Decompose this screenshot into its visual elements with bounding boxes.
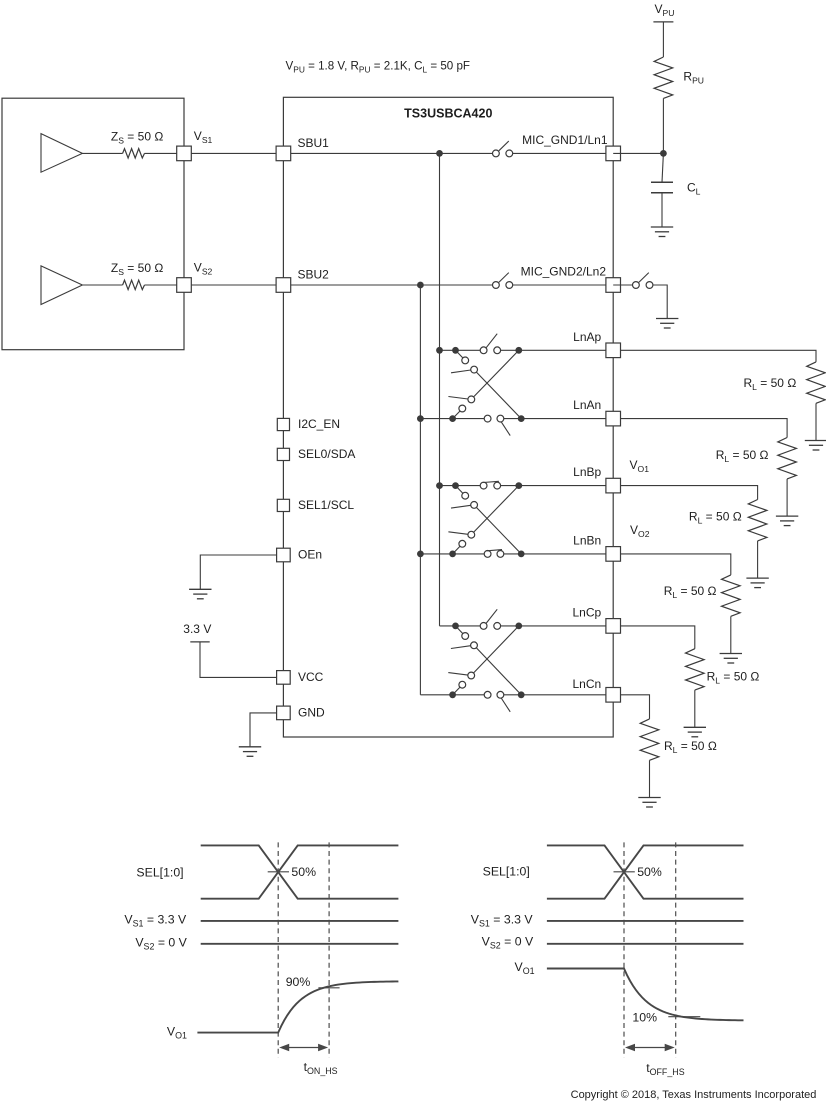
svg-text:LnBp: LnBp — [573, 465, 601, 479]
node LnCp inner junction — [452, 623, 459, 630]
wire MIC_GND1 pin to node — [613, 152, 663, 154]
wire LnAn switch to pin — [504, 418, 613, 420]
resistor ZS2 — [123, 280, 145, 289]
svg-text:LnAn: LnAn — [573, 398, 601, 412]
wire LnAn pin to load — [621, 419, 788, 438]
svg-text:50%: 50% — [637, 865, 662, 879]
svg-text:VS2 = 0 V: VS2 = 0 V — [135, 935, 187, 951]
label SEL0/SDA — [298, 447, 355, 461]
left label tON_HS — [304, 1060, 338, 1076]
right timing: label 50% — [637, 865, 662, 879]
wire bus A to LnAp switch — [440, 349, 481, 351]
wire LnCp pin to load — [621, 626, 695, 649]
ground at LnAp load — [805, 441, 826, 451]
IC box TS3USBCA420 — [283, 97, 613, 737]
label LnBp — [573, 465, 601, 479]
label LnCn — [573, 677, 602, 691]
wire bus B to LnCn switch — [420, 694, 484, 696]
wire RL LnCp to ground — [694, 690, 696, 727]
switch LnAp through — [480, 334, 500, 354]
switch LnC cross n-to-p — [448, 626, 519, 695]
ground at LnBp load — [746, 578, 768, 588]
left timing: label 90% — [286, 975, 311, 989]
label LnCp — [573, 605, 602, 619]
label VO1 — [630, 458, 650, 474]
node bus A junction LnBp — [436, 482, 443, 489]
left timing: measurement arrow — [279, 1044, 328, 1051]
svg-text:OEn: OEn — [298, 547, 322, 561]
right label VO1 — [515, 960, 535, 976]
svg-text:SBU1: SBU1 — [298, 136, 330, 150]
switch LnAn through — [484, 415, 510, 435]
wire RL LnBp to ground — [757, 541, 759, 578]
wire MIC_GND2 pin to switch — [613, 284, 632, 286]
label RL LnBn — [664, 584, 717, 600]
label RL LnAp — [744, 376, 797, 392]
IC title TS3USBCA420 — [404, 107, 492, 121]
wire LnBn switch to pin — [504, 553, 613, 555]
label OEn — [298, 547, 322, 561]
left timing: VO1 waveform rising — [197, 981, 398, 1032]
label RL LnBp — [689, 510, 742, 526]
svg-text:SEL[1:0]: SEL[1:0] — [483, 865, 530, 879]
wire resistor ZS1 to VS1 node — [145, 152, 185, 154]
wire switch to ground elbow — [653, 285, 667, 319]
left timing: dashed line end — [328, 842, 330, 1057]
svg-text:MIC_GND2/Ln2: MIC_GND2/Ln2 — [521, 265, 607, 279]
node LnAp outer junction — [515, 347, 522, 354]
svg-text:LnBn: LnBn — [573, 533, 601, 547]
left timing: dashed line start — [277, 842, 279, 1057]
svg-text:SEL[1:0]: SEL[1:0] — [136, 866, 183, 880]
resistor RL LnBn — [722, 575, 741, 616]
wire RPU to node — [662, 98, 664, 153]
right label SEL[1:0] — [483, 865, 530, 879]
right timing: VO1 waveform falling — [547, 969, 744, 1021]
wire buffer2 to resistor — [82, 284, 122, 286]
node LnCn outer junction — [518, 691, 525, 698]
capacitor CL — [651, 182, 673, 193]
switch LnB cross n-to-p — [448, 486, 518, 554]
pin LnCn — [606, 688, 621, 703]
node LnCp outer junction — [515, 623, 522, 630]
wire SBU1 to switch — [283, 152, 492, 154]
label SBU2 — [298, 267, 330, 281]
node junction bus A on SBU1 line — [436, 150, 443, 157]
svg-text:VCC: VCC — [298, 670, 324, 684]
pin LnAp — [606, 343, 621, 358]
pin SEL1/SCL — [277, 499, 289, 511]
svg-text:RL = 50 Ω: RL = 50 Ω — [707, 670, 760, 686]
label RL LnAn — [716, 448, 769, 464]
pin LnCp — [606, 619, 621, 634]
node LnBn outer junction — [518, 551, 525, 558]
right timing: SEL bus rails with crossover — [547, 845, 744, 898]
node junction bus B on SBU2 line — [417, 282, 424, 289]
ground at MIC_GND2 — [656, 319, 678, 329]
wire VS2 to SBU2 — [184, 284, 283, 286]
wire bus A to LnBp switch — [440, 485, 481, 487]
wire LnBp pin to load — [621, 486, 758, 500]
resistor RPU — [654, 57, 673, 98]
bus A vertical wire — [439, 153, 441, 626]
label VS2 — [194, 261, 213, 277]
resistor ZS1 — [123, 149, 145, 158]
copyright notice — [571, 1089, 817, 1101]
label I2C_EN — [298, 417, 340, 431]
wire RL LnAn to ground — [786, 479, 788, 516]
left timing: VS2 level line — [201, 943, 399, 945]
pin GND — [277, 706, 291, 720]
supply VPU bar — [653, 21, 673, 23]
wire buffer1 to resistor — [82, 152, 122, 154]
resistor RL LnAp — [807, 362, 826, 403]
wire bus A to LnCp switch — [440, 625, 481, 627]
wire node to CL — [662, 153, 663, 182]
svg-text:RL = 50 Ω: RL = 50 Ω — [664, 584, 717, 600]
label MIC_GND2/Ln2 — [521, 265, 607, 279]
bus B vertical wire — [419, 285, 421, 695]
svg-text:I2C_EN: I2C_EN — [298, 417, 340, 431]
right timing: dashed line end — [675, 842, 677, 1057]
switch SW1 MIC_GND1 — [493, 141, 513, 157]
pin LnBn — [606, 547, 621, 562]
svg-text:VPU = 1.8 V, RPU = 2.1K, CL =: VPU = 1.8 V, RPU = 2.1K, CL = 50 pF — [286, 60, 471, 75]
node LnBn inner junction — [449, 551, 456, 558]
right label tOFF_HS — [646, 1061, 685, 1077]
right timing: VS1 level line — [547, 920, 744, 922]
wire LnAp switch to pin — [501, 349, 614, 351]
svg-text:RL = 50 Ω: RL = 50 Ω — [716, 448, 769, 464]
label CL — [687, 181, 701, 197]
left label VS2 = 0 V — [135, 935, 187, 951]
left timing: SEL bus rails with crossover — [201, 845, 399, 898]
node LnAn outer junction — [518, 415, 525, 422]
svg-text:50%: 50% — [291, 865, 316, 879]
label LnAp — [573, 330, 601, 344]
switch SW MIC_GND2 external — [633, 273, 653, 289]
node LnBp outer junction — [515, 482, 522, 489]
pin SBU1 — [276, 146, 291, 161]
node LnAp inner junction — [452, 347, 459, 354]
resistor RL LnCn — [640, 719, 659, 760]
pin SBU2 — [276, 278, 291, 293]
svg-text:LnAp: LnAp — [573, 330, 601, 344]
resistor RL LnCp — [686, 649, 705, 690]
svg-text:SBU2: SBU2 — [298, 267, 330, 281]
switch LnC cross p-to-n — [451, 626, 521, 695]
switch LnCn through — [484, 691, 510, 711]
label VS1 — [194, 129, 213, 145]
svg-text:LnCn: LnCn — [573, 677, 602, 691]
wire LnCp switch to pin — [501, 625, 614, 627]
right timing: measurement arrow — [625, 1044, 675, 1051]
wire SBU2 to switch — [283, 284, 492, 286]
ground at CL — [651, 227, 673, 237]
label RL LnCp — [707, 670, 760, 686]
label LnBn — [573, 533, 601, 547]
right label VS1 = 3.3 V — [471, 912, 534, 928]
pin I2C_EN — [277, 418, 289, 430]
label MIC_GND1/Ln1 — [522, 133, 608, 147]
svg-text:3.3 V: 3.3 V — [183, 622, 211, 636]
right timing: 50% level tick — [614, 871, 635, 873]
pin VCC — [277, 671, 291, 685]
switch LnBn through — [484, 550, 504, 558]
note: test conditions text — [286, 60, 471, 75]
wire VS1 to SBU1 — [184, 152, 283, 154]
resistor RL LnBp — [748, 500, 767, 541]
svg-text:VS2 = 0 V: VS2 = 0 V — [482, 935, 534, 951]
label VCC — [298, 670, 324, 684]
left timing: 50% level tick — [268, 871, 289, 873]
wire switch to MIC_GND2 pin — [513, 284, 614, 286]
svg-text:10%: 10% — [632, 1011, 657, 1025]
svg-text:TS3USBCA420: TS3USBCA420 — [404, 107, 492, 121]
label SBU1 — [298, 136, 330, 150]
wire LnCn pin to load — [621, 695, 650, 719]
left timing: label 50% — [291, 865, 316, 879]
label SEL1/SCL — [298, 498, 354, 512]
wire 3.3V to VCC — [200, 642, 277, 678]
switch LnBp through — [480, 481, 500, 489]
right timing: VS2 level line — [547, 943, 744, 945]
svg-text:Copyright © 2018, Texas Instru: Copyright © 2018, Texas Instruments Inco… — [571, 1089, 817, 1101]
wire GND to ground — [250, 713, 277, 747]
buffer amplifier 1 — [41, 134, 82, 173]
pin LnAn — [606, 411, 621, 426]
node LnBp inner junction — [452, 482, 459, 489]
wire VPU to RPU — [662, 22, 664, 57]
node VS1 square — [177, 146, 192, 161]
wire LnCn switch to pin — [504, 694, 613, 696]
wire switch to MIC_GND1 pin — [513, 152, 614, 154]
pin SEL0/SDA — [277, 448, 289, 460]
label ZS2 = 50 ohm — [111, 261, 163, 277]
left label VO1 — [167, 1024, 187, 1040]
wire LnBn pin to load — [621, 554, 731, 575]
node bus B junction LnAn — [417, 415, 424, 422]
signal source box — [2, 98, 184, 350]
pin LnBp — [606, 478, 621, 493]
node VS2 square — [177, 278, 192, 293]
svg-text:RL = 50 Ω: RL = 50 Ω — [689, 510, 742, 526]
svg-text:SEL1/SCL: SEL1/SCL — [298, 498, 354, 512]
svg-text:GND: GND — [298, 705, 325, 719]
ground at GND pin — [239, 747, 261, 757]
node LnCn inner junction — [449, 691, 456, 698]
pin OEn — [277, 548, 291, 562]
label GND — [298, 705, 325, 719]
right label VS2 = 0 V — [482, 935, 534, 951]
wire RL LnAp to ground — [815, 403, 817, 440]
supply 3.3V bar — [190, 641, 209, 643]
wire resistor ZS2 to VS2 node — [145, 284, 185, 286]
pin MIC_GND2/Ln2 — [606, 278, 621, 293]
wire OEn to ground — [200, 555, 276, 589]
label RPU — [683, 70, 704, 86]
svg-text:LnCp: LnCp — [573, 605, 602, 619]
label 3.3 V — [183, 622, 211, 636]
right timing: dashed line start — [623, 842, 625, 1057]
wire RL LnBn to ground — [730, 616, 732, 653]
switch LnB cross p-to-n — [451, 486, 521, 554]
ground at LnCn load — [638, 798, 660, 808]
label LnAn — [573, 398, 601, 412]
switch LnA cross n-to-p — [448, 350, 518, 418]
label RL LnCn — [664, 739, 717, 755]
wire CL to ground — [661, 193, 663, 227]
wire RL LnCn to ground — [649, 760, 651, 797]
left label VS1 = 3.3 V — [124, 912, 187, 928]
switch LnA cross p-to-n — [451, 350, 521, 418]
svg-text:90%: 90% — [286, 975, 311, 989]
pin MIC_GND1/Ln1 — [606, 146, 621, 161]
left timing: VS1 level line — [201, 920, 399, 922]
right timing: 10% level tick — [668, 1016, 700, 1018]
buffer amplifier 2 — [41, 266, 82, 305]
label VPU — [655, 2, 675, 18]
label VO2 — [630, 523, 650, 539]
wire LnBp switch to pin — [501, 485, 614, 487]
ground at LnAn load — [776, 516, 798, 526]
node MIC_GND1 junction — [660, 150, 667, 157]
wire bus B to LnAn switch — [420, 418, 484, 420]
node bus A junction LnAp — [436, 347, 443, 354]
label ZS1 = 50 ohm — [111, 130, 163, 146]
switch SW2 MIC_GND2 — [493, 273, 513, 289]
left timing: 90% level tick — [318, 987, 339, 989]
left label SEL[1:0] — [136, 866, 183, 880]
switch LnCp through — [480, 609, 500, 629]
svg-text:RL = 50 Ω: RL = 50 Ω — [744, 376, 797, 392]
right timing: label 10% — [632, 1011, 657, 1025]
wire LnAp pin to load — [621, 350, 817, 362]
wire bus B to LnBn switch — [420, 553, 484, 555]
node LnAn inner junction — [449, 415, 456, 422]
node bus B junction LnBn — [417, 551, 424, 558]
ground at LnCp load — [684, 727, 706, 737]
resistor RL LnAn — [778, 438, 797, 479]
ground at OEn — [189, 589, 211, 599]
svg-text:RL = 50 Ω: RL = 50 Ω — [664, 739, 717, 755]
ground at LnBn load — [720, 654, 742, 664]
svg-text:SEL0/SDA: SEL0/SDA — [298, 447, 355, 461]
svg-text:MIC_GND1/Ln1: MIC_GND1/Ln1 — [522, 133, 608, 147]
